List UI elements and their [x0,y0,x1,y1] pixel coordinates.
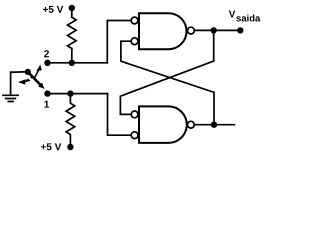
U1 input bubble bottom [131,38,138,45]
label 2 [44,50,49,57]
node 2 contact dot [44,60,50,66]
switch motion dashed arc [26,76,34,81]
U2 input bubble top [131,111,138,118]
wire node 1 down to gate U2 input B [108,94,132,136]
resistor R2 (pull-up for node 1) [66,94,75,145]
U1 output bubble [188,27,195,34]
wire ground to switch pole [11,71,27,73]
terminal dot +5V bottom [67,144,73,150]
U2 output bubble [188,121,195,128]
wire node 2 up to gate U1 input A [107,21,131,63]
label Vsaida [229,11,236,18]
switch S1 pole dot [25,69,31,75]
wire cross-coupling U2 output up to U1 input B [121,41,214,125]
U2 input bubble bottom [131,132,138,139]
wire U1 output to Vsaida [195,29,240,31]
resistor R1 (pull-up for node 2) [68,17,77,48]
junction U1 output [211,27,217,33]
node 2 horizontal wire [48,62,108,64]
junction node 2 / R1 [69,60,75,66]
ground [3,72,18,101]
label 1 [44,101,49,108]
U1 input bubble top [131,17,138,24]
wire U2 output stub [195,124,234,126]
label +5 V (bottom) [41,143,61,150]
terminal dot +5V top [69,5,75,11]
switch arrow up (toward contact 2) [36,65,42,72]
terminal dot Vsaida [237,27,243,33]
node 1 contact dot [44,90,50,96]
junction node 1 / R2 [67,90,73,96]
label +5 V (top) [43,6,63,13]
wire cross-coupling U1 output down to U2 input A [120,30,213,114]
junction U2 output [211,122,217,128]
wire +5V top to resistor R1 [71,8,73,17]
nand gate U2 body [139,106,187,142]
wire resistor R1 bottom to node 2 [71,49,73,63]
nand gate U1 body [139,13,187,49]
node 1 horizontal wire [48,93,108,95]
switch S1 lever [28,72,41,85]
switch arrow left (toward ground side) [18,79,26,84]
